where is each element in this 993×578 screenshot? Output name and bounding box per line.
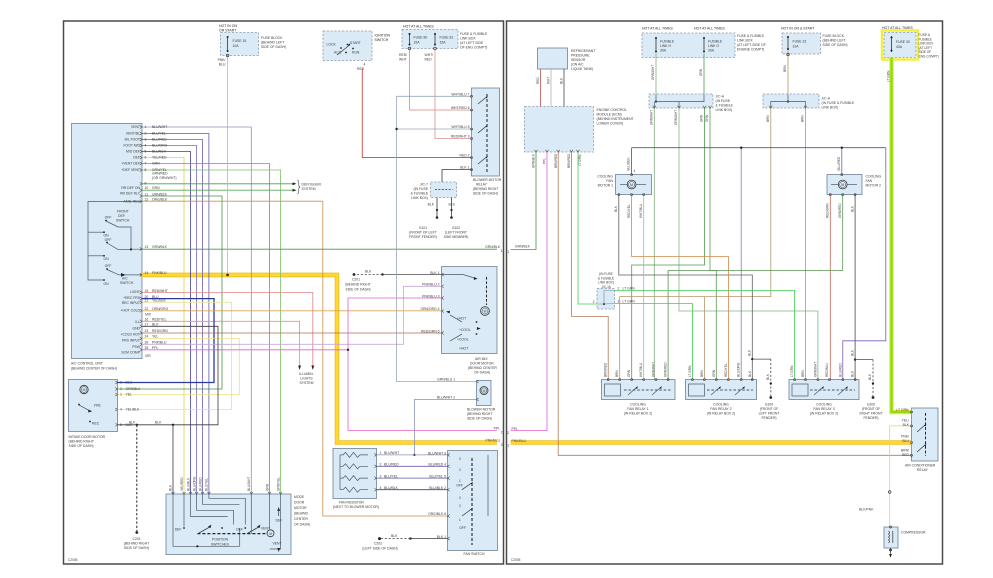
svg-text:4: 4 [364, 63, 366, 67]
svg-text:BRN: BRN [766, 115, 770, 122]
svg-text:REC: REC [92, 422, 100, 426]
svg-text:11: 11 [145, 192, 149, 196]
svg-text:BLK: BLK [851, 349, 855, 356]
svg-text:GRN/RED: GRN/RED [152, 172, 168, 176]
svg-text:3: 3 [618, 300, 620, 304]
svg-text:10A: 10A [233, 44, 240, 48]
svg-text:GRN/BLK: GRN/BLK [126, 387, 142, 391]
svg-text:DEF: DEF [133, 156, 140, 160]
svg-text:RED/BLU: RED/BLU [825, 362, 829, 377]
svg-text:BLK 1: BLK 1 [437, 535, 446, 539]
svg-text:GND: GND [132, 327, 140, 331]
svg-text:BLU/ORG: BLU/ORG [192, 476, 196, 491]
svg-text:SWITCHES: SWITCHES [211, 543, 230, 547]
svg-text:FENDER): FENDER) [761, 416, 776, 420]
svg-text:1: 1 [459, 479, 461, 483]
svg-text:C202: C202 [374, 542, 382, 546]
svg-text:24: 24 [145, 335, 149, 339]
svg-text:YEL: YEL [152, 335, 159, 339]
svg-text:SWITCH: SWITCH [375, 38, 389, 42]
svg-text:BLK: BLK [868, 373, 872, 380]
svg-text:WHT: WHT [547, 77, 551, 84]
svg-text:MOTOR: MOTOR [294, 506, 307, 510]
svg-text:LEFT FRONT: LEFT FRONT [759, 412, 780, 416]
svg-text:3: 3 [459, 457, 461, 461]
svg-text:BLK: BLK [129, 421, 136, 425]
svg-text:DEF: DEF [118, 214, 125, 218]
svg-text:GRN/BLK: GRN/BLK [515, 245, 531, 249]
svg-text:GRN: GRN [700, 114, 704, 122]
svg-text:GRN: GRN [627, 369, 631, 377]
svg-text:LINK G: LINK G [708, 44, 719, 48]
svg-text:OF DASH): OF DASH) [474, 371, 490, 375]
svg-text:CENTER: CENTER [294, 517, 308, 521]
svg-text:ILLUMIN-: ILLUMIN- [299, 372, 314, 376]
svg-text:DOOR MOTOR: DOOR MOTOR [470, 362, 494, 366]
svg-text:BLU/YEL: BLU/YEL [152, 132, 166, 136]
svg-text:& FUSIBLE: & FUSIBLE [411, 192, 429, 196]
svg-text:FUSIBLE: FUSIBLE [708, 40, 723, 44]
svg-text:BLK: BLK [850, 205, 854, 212]
svg-text:YEL/: YEL/ [902, 419, 909, 423]
svg-text:PNK/: PNK/ [218, 58, 226, 62]
svg-text:BLU: BLU [126, 381, 133, 385]
svg-text:(OR GRN/WHT): (OR GRN/WHT) [152, 176, 176, 180]
svg-text:15A: 15A [440, 41, 447, 45]
svg-text:COOLING: COOLING [866, 175, 882, 179]
svg-text:(IN FUSE: (IN FUSE [413, 187, 428, 191]
svg-text:FUSE 15: FUSE 15 [233, 39, 247, 43]
svg-text:GRN/BLU 1: GRN/BLU 1 [437, 378, 455, 382]
svg-text:14: 14 [145, 271, 149, 275]
svg-text:LIGHTS: LIGHTS [300, 377, 313, 381]
svg-text:BLU: BLU [902, 439, 909, 443]
svg-text:A/C: A/C [122, 277, 128, 281]
svg-text:WHT/BLU 5: WHT/BLU 5 [451, 125, 469, 129]
svg-text:3: 3 [459, 496, 461, 500]
svg-text:19: 19 [145, 289, 149, 293]
svg-text:PPL: PPL [494, 427, 501, 431]
svg-text:FAN: FAN [606, 179, 613, 183]
svg-text:BLU/RED: BLU/RED [198, 476, 202, 491]
svg-text:RED/WHT 3: RED/WHT 3 [451, 135, 470, 139]
svg-text:PNK/BLU 2: PNK/BLU 2 [422, 283, 439, 287]
svg-text:DOOR: DOOR [294, 501, 305, 505]
svg-text:RED: RED [357, 67, 365, 71]
svg-text:LINK BOX): LINK BOX) [716, 108, 733, 112]
svg-text:(BEHIND RIGHT: (BEHIND RIGHT [345, 283, 370, 287]
svg-text:RED/: RED/ [399, 53, 407, 57]
svg-text:WHT/RED 6: WHT/RED 6 [451, 106, 470, 110]
svg-text:MIX: MIX [145, 313, 152, 317]
svg-text:BLU/WHT: BLU/WHT [152, 125, 167, 129]
svg-text:BRN/RED: BRN/RED [554, 153, 558, 168]
svg-text:(BEHIND INSTRUMENT: (BEHIND INSTRUMENT [597, 117, 634, 121]
svg-text:1: 1 [459, 518, 461, 522]
svg-text:(FRONT OF: (FRONT OF [760, 407, 778, 411]
svg-text:FRE: FRE [94, 404, 102, 408]
svg-text:GRN/WHT: GRN/WHT [652, 362, 656, 377]
svg-text:SIDE MEMBER): SIDE MEMBER) [444, 235, 469, 239]
svg-text:(BEHIND RIGHT: (BEHIND RIGHT [124, 542, 149, 546]
svg-text:2: 2 [145, 132, 147, 136]
svg-text:BRN: BRN [615, 370, 619, 377]
svg-text:FUSE 80: FUSE 80 [414, 36, 428, 40]
svg-text:G200: G200 [867, 403, 875, 407]
svg-text:GRN: GRN [699, 68, 703, 76]
svg-text:(AT LEFT SIDE OF: (AT LEFT SIDE OF [737, 43, 766, 47]
svg-text:FAN RESISTOR: FAN RESISTOR [339, 501, 364, 505]
svg-text:SIDE OF DASH): SIDE OF DASH) [823, 43, 848, 47]
svg-text:LOCK: LOCK [327, 43, 337, 47]
svg-text:BRN: BRN [700, 370, 704, 377]
svg-text:M: M [841, 183, 844, 187]
svg-text:BLK: BLK [155, 421, 162, 425]
svg-text:MODULE (ECM): MODULE (ECM) [597, 113, 622, 117]
svg-text:2: 2 [380, 463, 382, 467]
svg-text:RED/YEL: RED/YEL [152, 318, 167, 322]
svg-text:COOLING: COOLING [597, 175, 613, 179]
svg-text:3: 3 [380, 474, 382, 478]
svg-text:HOT AT ALL TIMES: HOT AT ALL TIMES [403, 25, 434, 29]
svg-text:BLU/WHT 2: BLU/WHT 2 [437, 396, 455, 400]
svg-text:FAN RELAY 3: FAN RELAY 3 [813, 407, 834, 411]
svg-text:BLK: BLK [428, 203, 435, 207]
svg-text:M: M [484, 310, 487, 314]
svg-text:AIR CONDITIONER: AIR CONDITIONER [905, 464, 936, 468]
svg-text:COOLING: COOLING [713, 403, 729, 407]
svg-text:YEL/BLK: YEL/BLK [126, 408, 140, 412]
svg-text:BLK 1: BLK 1 [460, 166, 469, 170]
svg-text:LINK BOX: LINK BOX [737, 39, 753, 43]
svg-text:BLOWER MOTOR: BLOWER MOTOR [467, 408, 496, 412]
svg-text:2: 2 [593, 300, 595, 304]
svg-text:RED: RED [902, 453, 910, 457]
svg-text:BLK: BLK [560, 77, 564, 84]
svg-text:(BEHIND CENTER OF DASH): (BEHIND CENTER OF DASH) [71, 367, 117, 371]
svg-text:GRN: GRN [712, 369, 716, 377]
svg-text:PSW: PSW [132, 345, 141, 349]
svg-text:2: 2 [501, 431, 503, 435]
svg-text:DEFOGGER: DEFOGGER [302, 182, 322, 186]
svg-text:OF DASH): OF DASH) [294, 523, 310, 527]
svg-text:BLU/BLK: BLU/BLK [152, 150, 167, 154]
svg-text:BLK: BLK [152, 323, 159, 327]
svg-text:(ON A/C: (ON A/C [571, 63, 584, 67]
svg-text:GRN: GRN [705, 114, 709, 122]
svg-text:LT GRN: LT GRN [790, 365, 794, 377]
svg-text:WHT/: WHT/ [425, 53, 434, 57]
svg-text:GRN/WHT: GRN/WHT [649, 110, 653, 125]
svg-text:G102: G102 [452, 226, 460, 230]
svg-text:VENT: VENT [131, 125, 140, 129]
svg-text:BLK 1: BLK 1 [430, 271, 439, 275]
svg-text:HOT IN ON & START: HOT IN ON & START [781, 27, 815, 31]
svg-text:7: 7 [145, 162, 147, 166]
svg-text:2: 2 [507, 431, 509, 435]
svg-text:PRS INPUT: PRS INPUT [122, 339, 140, 343]
svg-text:6: 6 [145, 156, 147, 160]
svg-text:SIDE OF DASH): SIDE OF DASH) [261, 45, 286, 49]
svg-text:WHT/BLU 7: WHT/BLU 7 [451, 92, 469, 96]
svg-text:+COOL: +COOL [457, 338, 469, 342]
svg-text:J/C-16: J/C-16 [601, 285, 611, 289]
svg-text:LOWER COVER): LOWER COVER) [597, 122, 624, 126]
svg-text:FUSE 81: FUSE 81 [440, 36, 454, 40]
svg-text:(FRONT OF: (FRONT OF [862, 407, 880, 411]
svg-text:ORN/ORG 4: ORN/ORG 4 [420, 307, 439, 311]
svg-text:23: 23 [145, 329, 149, 333]
svg-text:AIR MIX: AIR MIX [475, 357, 488, 361]
svg-text:FAN: FAN [866, 179, 873, 183]
svg-text:OFF: OFF [105, 238, 112, 242]
svg-text:COMPRESSOR: COMPRESSOR [901, 531, 926, 535]
svg-text:+HOT: +HOT [459, 347, 468, 351]
svg-text:WHT/BLU: WHT/BLU [639, 362, 643, 377]
svg-text:RUN: RUN [352, 51, 360, 55]
svg-text:ENGINE CONTROL: ENGINE CONTROL [597, 108, 628, 112]
svg-text:FOOT M/D: FOOT M/D [123, 144, 140, 148]
svg-text:VENT/BL: VENT/BL [126, 132, 140, 136]
svg-text:(NEXT TO BLOWER MOTOR): (NEXT TO BLOWER MOTOR) [333, 505, 379, 509]
svg-text:RED/YEL: RED/YEL [724, 363, 728, 377]
svg-text:M: M [83, 388, 86, 392]
svg-text:SIDE OF DASH): SIDE OF DASH) [473, 192, 498, 196]
svg-text:BLK: BLK [748, 349, 752, 356]
svg-text:YEL: YEL [126, 393, 133, 397]
svg-text:FENDER): FENDER) [863, 416, 878, 420]
svg-text:(IN RELAY BOX 2): (IN RELAY BOX 2) [707, 412, 735, 416]
svg-text:DEF: DEF [175, 528, 182, 532]
svg-text:SCM COMP: SCM COMP [121, 350, 140, 354]
svg-text:GRN: GRN [152, 162, 160, 166]
svg-text:FUSIBLE: FUSIBLE [660, 40, 675, 44]
svg-text:BLU/YEL: BLU/YEL [384, 474, 398, 478]
svg-text:C201: C201 [352, 278, 360, 282]
svg-text:SWITCH: SWITCH [120, 281, 134, 285]
svg-text:PRESSURE: PRESSURE [571, 54, 590, 58]
svg-text:BLOWER MOTOR: BLOWER MOTOR [473, 178, 502, 182]
svg-text:SENSOR: SENSOR [571, 58, 586, 62]
svg-text:M: M [483, 389, 486, 393]
svg-text:PNK/: PNK/ [901, 435, 909, 439]
svg-text:SIDE OF DASH): SIDE OF DASH) [467, 417, 492, 421]
svg-text:RED: RED [425, 58, 433, 62]
svg-text:ON: ON [103, 282, 109, 286]
svg-text:C2005: C2005 [511, 558, 521, 562]
svg-text:LT GRN: LT GRN [623, 287, 636, 291]
svg-text:BRN: BRN [801, 115, 805, 122]
svg-text:POSITION: POSITION [212, 538, 229, 542]
svg-text:SIDE OF DASH): SIDE OF DASH) [345, 288, 370, 292]
svg-text:BLK: BLK [449, 203, 456, 207]
svg-text:FUSE & FUSIBLE: FUSE & FUSIBLE [460, 32, 488, 36]
svg-text:GRN/BLK: GRN/BLK [532, 153, 536, 168]
svg-text:HOT AT ALL TIMES: HOT AT ALL TIMES [694, 27, 725, 31]
svg-text:(IN FUSE: (IN FUSE [716, 99, 731, 103]
svg-text:GRN/WHT: GRN/WHT [674, 110, 678, 125]
svg-text:2: 2 [459, 504, 461, 508]
svg-text:PNK/BLU: PNK/BLU [152, 340, 167, 344]
svg-text:BRN: BRN [783, 65, 787, 72]
svg-text:BLU/ORG: BLU/ORG [152, 144, 168, 148]
svg-text:(BEHIND CENTER: (BEHIND CENTER [468, 366, 497, 370]
svg-text:BLK: BLK [748, 370, 752, 377]
svg-text:BLU/RED: BLU/RED [152, 138, 167, 142]
svg-text:+HOT COLD: +HOT COLD [121, 309, 141, 313]
svg-text:LINK BOX: LINK BOX [460, 37, 476, 41]
svg-text:13: 13 [145, 245, 149, 249]
svg-text:ENG COMPT): ENG COMPT) [919, 55, 939, 59]
svg-text:21: 21 [145, 299, 149, 303]
svg-text:(BEHIND RIGHT: (BEHIND RIGHT [69, 440, 94, 444]
svg-text:5: 5 [145, 150, 147, 154]
svg-text:VENT: VENT [273, 542, 282, 546]
svg-text:GRN/RED: GRN/RED [838, 203, 842, 218]
svg-text:15A: 15A [414, 41, 421, 45]
svg-text:LIGHT: LIGHT [130, 290, 140, 294]
svg-text:BLK: BLK [903, 423, 910, 427]
svg-text:ORN/ORG: ORN/ORG [152, 307, 169, 311]
svg-text:OFF: OFF [105, 264, 112, 268]
svg-text:BLK/PNK: BLK/PNK [859, 508, 874, 512]
svg-text:LT GRN: LT GRN [887, 70, 891, 82]
svg-text:2: 2 [459, 468, 461, 472]
svg-text:(LEFT SIDE OF DASH): (LEFT SIDE OF DASH) [362, 547, 397, 551]
svg-text:GRN: GRN [265, 483, 269, 491]
svg-text:LINK H: LINK H [660, 44, 671, 48]
svg-text:LIQUID TANK): LIQUID TANK) [571, 67, 593, 71]
svg-text:ON: ON [103, 257, 109, 261]
svg-text:BLK: BLK [614, 205, 618, 212]
svg-text:OFF: OFF [105, 216, 112, 220]
svg-text:C2005: C2005 [68, 558, 78, 562]
svg-text:RED/GRN: RED/GRN [826, 203, 830, 218]
svg-text:HOT AT ALL TIMES: HOT AT ALL TIMES [882, 26, 913, 30]
svg-text:M/D DEF: M/D DEF [126, 150, 140, 154]
svg-text:1: 1 [507, 250, 509, 254]
svg-text:RIGHT FRONT: RIGHT FRONT [859, 412, 882, 416]
svg-text:RR DEF ON: RR DEF ON [121, 186, 140, 190]
svg-text:C201: C201 [132, 537, 140, 541]
svg-text:COOLING: COOLING [630, 403, 646, 407]
svg-text:A/C CONTROL UNIT: A/C CONTROL UNIT [71, 362, 103, 366]
svg-text:+REC FRS: +REC FRS [123, 296, 141, 300]
svg-text:BLK: BLK [169, 484, 173, 491]
svg-text:FRONT FENDER): FRONT FENDER) [409, 235, 437, 239]
svg-text:GRN/BLK: GRN/BLK [485, 245, 501, 249]
svg-text:(IN RELAY BOX 2): (IN RELAY BOX 2) [810, 412, 838, 416]
svg-text:(BEHIND LEFT: (BEHIND LEFT [261, 41, 284, 45]
svg-text:G101: G101 [419, 226, 427, 230]
svg-text:RELAY: RELAY [917, 468, 929, 472]
svg-text:IGNITION: IGNITION [375, 34, 391, 38]
svg-text:PNK/BLU: PNK/BLU [485, 439, 500, 443]
svg-text:(IN RELAY BOX 2): (IN RELAY BOX 2) [624, 412, 652, 416]
svg-text:HOT AT ALL TIMES: HOT AT ALL TIMES [642, 27, 673, 31]
svg-text:PPL: PPL [543, 158, 547, 164]
svg-text:GRN: GRN [152, 186, 160, 190]
svg-text:5: 5 [120, 423, 122, 427]
svg-text:PNK/BLU: PNK/BLU [512, 439, 527, 443]
svg-text:PPL: PPL [512, 427, 519, 431]
svg-text:1: 1 [501, 249, 503, 253]
svg-text:+COLD HOT: +COLD HOT [121, 332, 141, 336]
svg-text:LINK BOX): LINK BOX) [822, 106, 839, 110]
svg-text:START: START [350, 41, 361, 45]
svg-text:(BEHIND RIGHT: (BEHIND RIGHT [473, 187, 498, 191]
svg-text:GRN/BLK: GRN/BLK [152, 245, 168, 249]
svg-text:17: 17 [145, 323, 149, 327]
svg-text:BRN/RED: BRN/RED [567, 153, 571, 168]
svg-text:OFF: OFF [459, 526, 466, 530]
svg-text:25: 25 [145, 346, 149, 350]
svg-text:10: 10 [145, 186, 149, 190]
svg-text:4: 4 [380, 486, 382, 490]
svg-text:16: 16 [145, 318, 149, 322]
svg-text:SWITCH: SWITCH [116, 219, 130, 223]
svg-text:OR START: OR START [219, 29, 237, 33]
svg-text:J/C-7: J/C-7 [420, 183, 428, 187]
svg-text:WHT: WHT [399, 58, 407, 62]
svg-text:ILL: ILL [135, 320, 140, 324]
svg-text:MOTOR 1: MOTOR 1 [598, 184, 613, 188]
svg-text:DEF: DEF [236, 528, 243, 532]
svg-text:1: 1 [380, 451, 382, 455]
svg-text:(AT LEFT SIDE: (AT LEFT SIDE [460, 41, 484, 45]
svg-text:BLU/BLK: BLU/BLK [384, 486, 399, 490]
svg-text:& FUSIBLE: & FUSIBLE [716, 104, 734, 108]
svg-text:M: M [269, 532, 272, 536]
svg-text:BLU/YEL: BLU/YEL [205, 478, 209, 491]
svg-text:GRN/RED: GRN/RED [664, 362, 668, 377]
svg-text:4: 4 [120, 408, 122, 412]
svg-text:RED/GRN: RED/GRN [152, 329, 168, 333]
svg-text:1: 1 [145, 125, 147, 129]
svg-text:FUSE BLOCK: FUSE BLOCK [823, 34, 845, 38]
svg-text:REFRIGERANT: REFRIGERANT [571, 49, 595, 53]
svg-text:YEL/BLK: YEL/BLK [152, 299, 166, 303]
svg-text:BLU/YEL 5: BLU/YEL 5 [429, 474, 446, 478]
svg-text:OF ENG COMPT): OF ENG COMPT) [460, 46, 487, 50]
svg-text:PNK/BLU: PNK/BLU [152, 271, 167, 275]
svg-text:B/L FOOT: B/L FOOT [125, 138, 140, 142]
svg-text:LT GRN: LT GRN [578, 154, 582, 166]
svg-text:G100: G100 [765, 403, 773, 407]
svg-text:BLU: BLU [219, 63, 226, 67]
svg-text:RED: RED [536, 77, 540, 84]
svg-text:(LEFT FRONT: (LEFT FRONT [445, 231, 467, 235]
svg-text:26: 26 [145, 340, 149, 344]
svg-text:BLU/WHT: BLU/WHT [384, 451, 399, 455]
svg-text:RED/GRN 5: RED/GRN 5 [421, 329, 440, 333]
svg-text:+VENT DEF: +VENT DEF [121, 162, 140, 166]
svg-text:4: 4 [634, 169, 636, 173]
svg-text:22: 22 [145, 307, 149, 311]
svg-text:REC INPUT: REC INPUT [122, 301, 140, 305]
svg-text:DEF: DEF [276, 519, 283, 523]
svg-text:BLU/RED: BLU/RED [838, 362, 842, 377]
svg-text:BRN/: BRN/ [901, 449, 909, 453]
svg-text:BLU/RED: BLU/RED [837, 156, 841, 171]
svg-text:OFF: OFF [456, 484, 463, 488]
svg-text:BRN: BRN [801, 370, 805, 377]
svg-text:BLU/BLK: BLU/BLK [627, 157, 631, 171]
svg-text:FAN RELAY 1: FAN RELAY 1 [627, 407, 648, 411]
svg-text:12: 12 [145, 198, 149, 202]
svg-text:(FRONT OF LEFT: (FRONT OF LEFT [409, 231, 437, 235]
svg-text:(IN FUSE & FUSIBLE: (IN FUSE & FUSIBLE [822, 101, 856, 105]
